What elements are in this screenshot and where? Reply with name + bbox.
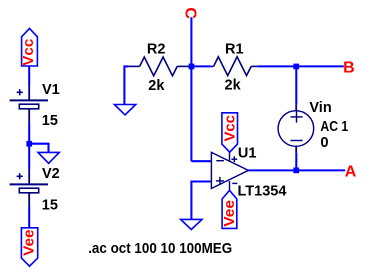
flag Vcc (top-left) [22,28,38,66]
wire J1 to ground [29,144,48,153]
svg-text:R2: R2 [147,42,166,58]
svg-text:V1: V1 [42,82,60,98]
wire J4 to A [296,169,345,171]
wire V1 to J1 to V2 [28,122,30,169]
svg-text:V2: V2 [42,166,60,182]
resistor R2 [140,57,178,76]
wire V1 to V2 [28,109,30,122]
svg-text:2k: 2k [225,77,242,93]
svg-text:R1: R1 [225,41,244,57]
svg-text:Vee: Vee [21,229,38,256]
wire Vcc to V1 [28,66,30,85]
junction J4 (node A) [293,168,299,174]
wire V2 to Vee flag [28,206,30,228]
svg-text:U1: U1 [238,145,257,161]
wire inverting input [191,160,210,162]
svg-text:2k: 2k [148,78,165,94]
svg-text:Vcc: Vcc [221,115,238,142]
svg-text:.ac oct 100 10 100MEG: .ac oct 100 10 100MEG [88,240,232,257]
wire node C vertical [190,17,192,161]
svg-text:LT1354: LT1354 [238,183,287,199]
flag Vee (op-amp supply) [222,190,237,228]
svg-text:A: A [345,163,357,180]
ground (under R2) [114,105,135,115]
svg-text:0: 0 [320,135,328,151]
resistor R1 [214,57,252,76]
wire R1 to J3 [258,65,296,67]
svg-text:15: 15 [42,198,58,214]
ground (left column) [38,152,59,163]
svg-text:AC 1: AC 1 [320,119,348,135]
voltage source Vin [278,111,314,147]
R2 leads [127,65,140,67]
wire op-amp output [248,169,296,171]
svg-text:Vcc: Vcc [20,39,37,66]
flag Vcc (op-amp supply) [222,113,238,152]
flag Vee (bottom-left) [21,228,37,266]
wire Vin to J4 [295,146,297,152]
wire Vin bottom to J4 [295,152,297,170]
svg-text:15: 15 [42,113,58,129]
wire V2 to Vee [28,193,30,206]
wire J2 to R1 [191,65,210,67]
wire R2 left corner [124,66,128,104]
op-amp U1 [211,152,248,190]
svg-text:B: B [343,59,355,76]
V2 top pin stub [28,169,30,184]
svg-text:C: C [181,7,198,19]
battery V1 [10,89,48,109]
junction J3 (node B) [293,64,299,70]
Vin top pin stub [295,105,297,111]
wire J3 down to Vin [295,66,297,104]
junction J1 [26,141,32,147]
svg-text:Vin: Vin [309,100,331,116]
battery V2 [10,173,48,193]
wire J3 to B [296,65,344,67]
wire non-inverting input [191,182,210,220]
V1 top pin stub [28,85,30,100]
svg-text:Vee: Vee [221,200,238,227]
ground (op-amp + input) [181,219,202,229]
R1 leads [211,65,214,67]
junction J2 (node C) [189,64,195,70]
